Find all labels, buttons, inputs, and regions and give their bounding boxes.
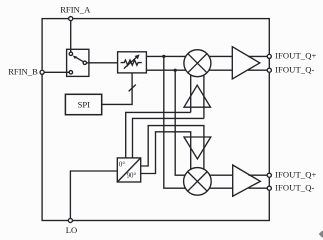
LO amp A2 (triangle down) bbox=[184, 137, 211, 159]
pin IFOUT_Q- lower bbox=[267, 186, 271, 190]
wire A4 to pin IFOUT_Q- (lower pair) bbox=[249, 187, 270, 189]
switch SW1 contact bottom (pole B) bbox=[69, 71, 72, 74]
switch SW1 contact common bbox=[83, 61, 86, 64]
wire RF+ branch down to mixer M2 bbox=[164, 56, 186, 188]
wire A1 input left elbow bbox=[126, 112, 191, 157]
chip outline bbox=[42, 19, 269, 221]
wire A1 input right elbow bbox=[133, 118, 204, 157]
pin RFIN_B bbox=[40, 70, 44, 74]
wire attenuator to mixer M1 lower (RF-) bbox=[146, 69, 186, 71]
svg-text:0°: 0° bbox=[119, 162, 125, 169]
0/90 splitter box bbox=[117, 158, 140, 182]
wire mixer M1 to IF amp A3 lower bbox=[209, 69, 232, 71]
pin IFOUT_Q+ lower bbox=[267, 173, 271, 177]
wire mixer M2 to IF amp A4 upper bbox=[209, 174, 232, 176]
pin LO bbox=[68, 218, 72, 222]
pin RFIN_A bbox=[69, 17, 73, 21]
svg-text:RFIN_B: RFIN_B bbox=[8, 66, 38, 76]
switch SW1 arm with arrow bbox=[75, 57, 84, 63]
svg-text:IFOUT_Q+: IFOUT_Q+ bbox=[275, 51, 317, 61]
wire switch to attenuator bbox=[87, 62, 118, 64]
mixer M2 bbox=[184, 168, 212, 196]
wire 90deg route upper bbox=[141, 126, 204, 170]
svg-text:RFIN_A: RFIN_A bbox=[60, 4, 91, 14]
wire mixer M2 to IF amp A4 lower bbox=[209, 187, 232, 189]
wire A3 to pin IFOUT_Q- bbox=[248, 69, 269, 71]
wire mixer M1 to IF amp A3 upper bbox=[209, 55, 232, 57]
decorative corner mark bbox=[319, 231, 323, 238]
svg-text:IFOUT_Q-: IFOUT_Q- bbox=[275, 64, 315, 74]
svg-text:90°: 90° bbox=[127, 173, 137, 180]
mixer M1 bbox=[184, 50, 211, 77]
wire 90deg route lower bbox=[141, 132, 191, 174]
wire attenuator to mixer M1 upper (RF+) bbox=[146, 55, 186, 57]
LO amp A1 (triangle up) bbox=[184, 85, 211, 107]
IF amp A4 bbox=[233, 165, 261, 196]
junction dot RF+ bbox=[162, 55, 165, 58]
wire A4 to pin IFOUT_Q+ (lower pair) bbox=[249, 174, 270, 176]
wire A3 to pin IFOUT_Q+ bbox=[248, 55, 269, 57]
wire RFIN_A to switch bbox=[70, 19, 72, 53]
LO amp A1 wires through (mixer M1 LO feed) bbox=[190, 75, 192, 113]
attenuator box bbox=[118, 52, 147, 73]
SPI block bbox=[65, 94, 101, 114]
attenuator resistor zigzag bbox=[121, 60, 142, 65]
switch SW1 box bbox=[67, 49, 89, 76]
switch SW1 contact top (pole A) bbox=[69, 52, 72, 55]
svg-text:SPI: SPI bbox=[78, 100, 91, 110]
attenuator adjust arrow bbox=[124, 57, 137, 69]
pin IFOUT_Q- upper bbox=[267, 68, 271, 72]
svg-text:IFOUT_Q+: IFOUT_Q+ bbox=[275, 169, 317, 179]
wire SPI to attenuator control bbox=[102, 73, 132, 105]
svg-text:IFOUT_Q-: IFOUT_Q- bbox=[275, 182, 315, 192]
bus-width slash on control line bbox=[129, 85, 136, 92]
wire RF- branch down to mixer M2 bbox=[175, 70, 186, 175]
wire RFIN_B to switch bbox=[42, 71, 69, 73]
wire LO pin to splitter bbox=[70, 171, 117, 221]
junction dot RF- bbox=[174, 69, 177, 72]
svg-text:LO: LO bbox=[66, 225, 77, 235]
IF amp A3 bbox=[232, 47, 259, 79]
pin IFOUT_Q+ upper bbox=[267, 54, 271, 58]
